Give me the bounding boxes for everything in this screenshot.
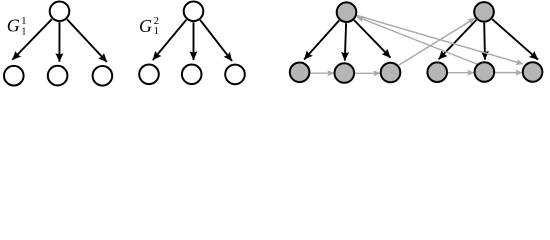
- edge G1^2 root to leaf 3: [200, 20, 232, 61]
- gray arrow tree B leaf 2 to tree A root: [357, 17, 478, 65]
- edge merged tree B root to leaf 1: [439, 20, 477, 60]
- edge merged tree B root to leaf 2: [483, 23, 486, 60]
- gray arrow tree B leaf 2 to leaf 3: [495, 72, 523, 74]
- edge merged tree A root to leaf 2: [345, 23, 346, 61]
- node merged tree B root: [474, 2, 494, 22]
- node G1^2 leaf 2: [182, 65, 202, 85]
- svg-text:G: G: [7, 16, 20, 36]
- node G1^1 leaf 3: [93, 66, 113, 86]
- gray arrow tree A leaf 3 to tree B root: [399, 18, 475, 65]
- gray arrow tree A root to tree B leaf 3: [357, 16, 523, 65]
- edge G1^1 root to leaf 2: [58, 22, 60, 62]
- edge G1^2 root to leaf 2: [193, 22, 195, 60]
- label G_1^2: [139, 16, 159, 37]
- gray arrow tree A leaf 2 to leaf 3: [355, 72, 381, 74]
- gray arrow tree B leaf 1 to leaf 2: [448, 72, 475, 74]
- node merged tree A root: [337, 2, 357, 22]
- node G1^2 root: [184, 2, 204, 22]
- node merged tree A leaf 3: [381, 63, 401, 83]
- node G1^1 leaf 2: [48, 66, 68, 86]
- svg-text:G: G: [139, 16, 152, 36]
- node merged tree B leaf 2: [475, 62, 495, 82]
- node G1^1 root: [50, 2, 70, 22]
- edge merged tree B root to leaf 3: [492, 19, 538, 60]
- svg-text:1: 1: [21, 26, 26, 37]
- svg-text:1: 1: [154, 26, 159, 37]
- edge G1^1 root to leaf 3: [67, 19, 107, 62]
- edge G1^2 root to leaf 1: [153, 20, 187, 60]
- node merged tree B leaf 3: [523, 62, 543, 82]
- node G1^2 leaf 1: [139, 65, 159, 85]
- edge merged tree A root to leaf 3: [354, 20, 390, 58]
- node merged tree A leaf 2: [335, 63, 355, 83]
- node G1^1 leaf 1: [4, 66, 24, 86]
- edge merged tree A root to leaf 1: [304, 20, 339, 59]
- node merged tree A leaf 1: [290, 63, 310, 83]
- label G_1^1: [7, 16, 27, 38]
- gray arrow tree A leaf 1 to leaf 2: [310, 72, 334, 74]
- node merged tree B leaf 1: [427, 62, 447, 82]
- node G1^2 leaf 3: [225, 65, 245, 85]
- edge G1^1 root to leaf 1: [12, 19, 52, 60]
